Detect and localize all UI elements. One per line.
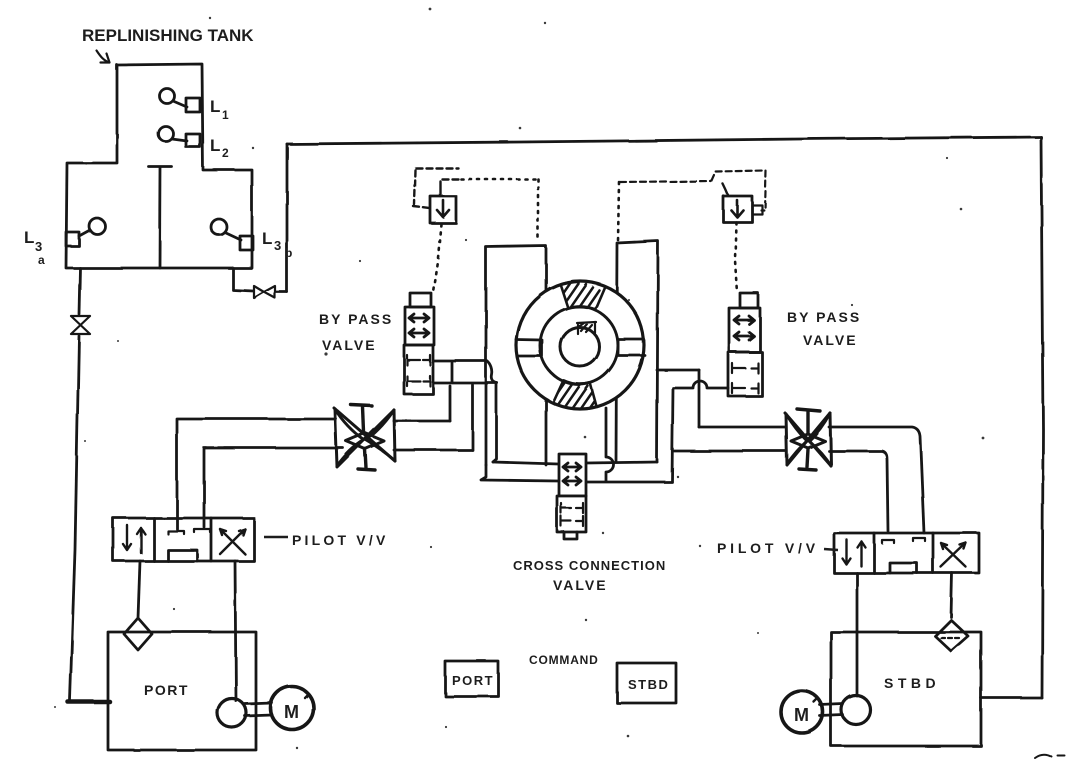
command indicator STBD box: [617, 663, 676, 703]
level gauge L2: [159, 127, 174, 142]
pipe: tank right drain: [233, 268, 253, 291]
dotted line solenoid to bypass valve (port): [433, 224, 441, 292]
svg-text:PORT: PORT: [144, 682, 189, 698]
pipe: gate valve upper line (port): [394, 420, 450, 423]
svg-text:M: M: [284, 702, 299, 722]
tank label arrow: [97, 51, 110, 63]
bottom hatched stator: [553, 380, 597, 409]
svg-text:VALVE: VALVE: [322, 337, 377, 353]
pipe: pilot to pump (stbd): [856, 573, 859, 696]
pipe: gate upper riser (port): [449, 386, 452, 421]
shut-off valve on left drain: [71, 316, 90, 334]
pipe: right return line: [1041, 137, 1043, 698]
svg-text:REPLINISHING TANK: REPLINISHING TANK: [82, 26, 254, 45]
bypass valve (port) body: [410, 293, 431, 307]
level gauge L3a: [66, 232, 79, 246]
filter (stbd): [935, 620, 968, 651]
svg-text:3: 3: [274, 238, 281, 253]
svg-text:1: 1: [222, 108, 229, 122]
pipe: bypass port upper to cylinder: [434, 361, 497, 383]
vane slots: [516, 340, 542, 357]
pipe: main riser: [286, 144, 289, 292]
isolating valve (stbd): [785, 409, 831, 470]
pipe: pilot to pump (port): [235, 561, 236, 701]
dashed pilot signal line (stbd): [620, 181, 712, 182]
pipe: return into stbd pump: [981, 697, 1042, 700]
svg-text:L: L: [24, 228, 34, 247]
svg-text:a: a: [38, 253, 45, 267]
svg-text:COMMAND: COMMAND: [529, 653, 599, 667]
pipe: to main riser: [276, 291, 287, 294]
pipe: gate lower riser (port): [471, 385, 474, 450]
bypass valve (stbd) body: [740, 293, 758, 308]
stbd pump unit: [781, 632, 981, 746]
command indicator PORT box: [445, 661, 498, 696]
tank divider: [149, 167, 172, 268]
pipe: pilot to gate upper (port): [177, 419, 336, 529]
svg-text:3: 3: [35, 239, 42, 254]
rotor shaft: [561, 328, 600, 367]
pipe: pilot to filter (port): [138, 561, 140, 618]
svg-text:VALVE: VALVE: [553, 577, 608, 593]
svg-text:CROSS CONNECTION: CROSS CONNECTION: [513, 558, 666, 573]
right cylinder: [616, 241, 658, 462]
level gauge L1: [160, 89, 175, 104]
pipe: gate valve lower line (port): [394, 449, 472, 452]
dashed pilot signal box (port): [413, 168, 459, 208]
pipe: drop to inner manifold (port): [493, 384, 497, 462]
shut-off valve on tank right drain: [254, 286, 275, 298]
left cylinder: [486, 246, 546, 465]
pipe: riser to gate upper (stbd): [698, 370, 701, 427]
filter (port): [124, 618, 152, 650]
replenishing tank outline: [66, 64, 252, 268]
svg-text:PILOT V/V: PILOT V/V: [717, 540, 819, 556]
solenoid valve (port): [430, 196, 456, 223]
svg-text:L: L: [210, 136, 220, 155]
solenoid valve (stbd): [723, 196, 752, 222]
cross connection valve: [559, 454, 586, 496]
top hatched stator: [560, 281, 605, 309]
pipe: left drain continues to port pump: [70, 336, 79, 700]
pipe: gate valve lower line (stbd): [674, 451, 888, 531]
pipe: outer manifold left: [481, 465, 558, 481]
pipe: riser (stbd): [672, 388, 673, 481]
port pump unit: [108, 632, 314, 750]
label pilot v/v (port): [264, 536, 288, 539]
dotted signal line to stbd side: [461, 178, 538, 181]
level gauge L3b: [211, 219, 227, 235]
pipe: thick bottom connection to port pump: [68, 700, 110, 705]
scan artifact bottom right: [1035, 755, 1065, 758]
pipe: actuator drain with hop: [606, 408, 614, 481]
svg-text:b: b: [285, 246, 292, 260]
pipe: inner manifold left: [493, 462, 558, 464]
dotted line solenoid to bypass valve (stbd): [735, 222, 737, 293]
pipe: bypass port lower header: [434, 382, 497, 385]
svg-text:PORT: PORT: [452, 673, 494, 688]
pilot valve (port): [113, 518, 254, 561]
pipe: top supply line: [287, 137, 1041, 144]
svg-text:STBD: STBD: [884, 675, 940, 691]
pipe: lower header with hop (stbd): [674, 381, 728, 388]
svg-text:BY PASS: BY PASS: [319, 311, 393, 327]
pipe: inner manifold right: [586, 462, 657, 463]
pipe: pilot to gate lower (port): [204, 448, 343, 527]
pipe: pilot to filter (stbd): [951, 573, 952, 617]
pipe: outer manifold right: [586, 481, 672, 484]
pipe: gate valve upper line (stbd): [699, 427, 924, 533]
svg-text:M: M: [794, 705, 809, 725]
rotary vane actuator: [516, 278, 645, 427]
svg-text:STBD: STBD: [628, 677, 669, 692]
svg-text:PILOT V/V: PILOT V/V: [292, 532, 388, 548]
dotted signal drop to left cylinder: [537, 179, 540, 240]
svg-text:L: L: [262, 229, 272, 248]
dashed signal drop to right cylinder: [618, 182, 619, 242]
pipe: notch between headers (port): [451, 363, 454, 382]
pipe: right cylinder upper line: [657, 369, 699, 372]
pipe: tank left drain: [79, 268, 80, 314]
svg-text:BY PASS: BY PASS: [787, 309, 861, 325]
svg-text:L: L: [210, 97, 220, 116]
svg-text:2: 2: [222, 146, 229, 160]
svg-text:VALVE: VALVE: [803, 332, 858, 348]
pilot valve (stbd): [834, 533, 979, 573]
isolating valve (port): [334, 405, 395, 470]
